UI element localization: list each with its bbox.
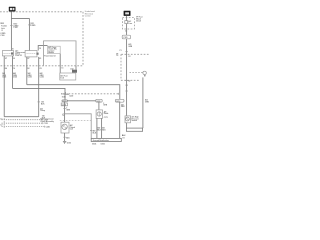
svg-text:C100: C100 bbox=[0, 35, 4, 37]
connector on A/C column with labels bbox=[61, 92, 70, 96]
wire from PCM inner box to junction block bbox=[59, 54, 61, 73]
labels on right wire bbox=[119, 43, 133, 52]
pressure switch label bbox=[132, 116, 139, 123]
svg-text:C125: C125 bbox=[40, 77, 44, 79]
fuse label bbox=[128, 20, 132, 25]
A/C column wire down bbox=[64, 102, 66, 122]
svg-text:87: 87 bbox=[28, 58, 30, 60]
left margin wire labels bbox=[0, 23, 7, 37]
PCM box outline (open bottom) bbox=[44, 41, 77, 66]
underhood fuse block dashed outline top edge bbox=[0, 11, 83, 13]
right block name bbox=[136, 17, 143, 23]
svg-text:C2: C2 bbox=[128, 56, 130, 58]
svg-text:S143: S143 bbox=[62, 96, 66, 99]
svg-text:C134: C134 bbox=[62, 103, 66, 106]
svg-text:C1: C1 bbox=[61, 68, 63, 70]
right dashed box bottom edge bbox=[121, 79, 139, 81]
compressor label rows bbox=[40, 107, 54, 122]
svg-text:E4: E4 bbox=[5, 67, 7, 70]
svg-text:C171: C171 bbox=[104, 117, 108, 119]
bottom-left dashed connector row 3 bbox=[2, 126, 45, 128]
svg-text:D2: D2 bbox=[27, 68, 29, 70]
svg-text:C100: C100 bbox=[13, 27, 17, 29]
junction block light box with text bbox=[60, 73, 76, 80]
right bus drop wire down to ground bus bbox=[119, 102, 121, 138]
svg-text:C220: C220 bbox=[69, 95, 73, 97]
svg-text:2 RED: 2 RED bbox=[30, 25, 36, 27]
label on compressor right edge wire bbox=[93, 130, 97, 135]
label left of dashed bbox=[116, 53, 119, 57]
svg-text:G104: G104 bbox=[92, 143, 96, 146]
in-line connector oval 2 (right bus drop) bbox=[115, 99, 124, 103]
A/C pressure switch box bbox=[125, 116, 131, 123]
fuse block name text bbox=[85, 11, 95, 17]
svg-text:C2: C2 bbox=[116, 55, 118, 57]
in-line connector oval 1 (diode column) bbox=[96, 99, 103, 103]
in-line connector oval on A/C column bbox=[62, 100, 68, 103]
tick at right wire y91 bbox=[125, 90, 127, 92]
left labels of connector rows bbox=[0, 118, 2, 126]
splice tick on left wire bbox=[10, 24, 12, 26]
splice label left wire bbox=[13, 24, 19, 30]
bottom-left dashed connector row 1 bbox=[2, 119, 43, 121]
tick and label at right wire y80 bbox=[125, 80, 127, 82]
junction block small dark box bbox=[72, 70, 77, 73]
svg-text:Coil: Coil bbox=[70, 129, 74, 131]
bottom-left dashed connector row 2 bbox=[2, 122, 43, 124]
diode box ground wires bbox=[97, 118, 102, 138]
svg-text:G103: G103 bbox=[67, 142, 71, 144]
svg-text:Detail: Detail bbox=[136, 19, 141, 22]
lower bus wire bbox=[13, 88, 66, 100]
svg-text:30: 30 bbox=[13, 58, 15, 60]
bottom-left dashed left edge bbox=[3, 118, 5, 128]
breaker drop wire bbox=[142, 77, 144, 128]
svg-text:C245: C245 bbox=[46, 125, 50, 128]
connector cavity labels below dashed edge bbox=[5, 67, 64, 70]
dashed connector line to right (C220) bbox=[69, 93, 119, 95]
svg-text:Comp: Comp bbox=[40, 110, 45, 112]
dashed line inside compressor box bbox=[60, 120, 91, 122]
compressor clutch coil box bbox=[61, 122, 69, 133]
svg-text:F6: F6 bbox=[13, 68, 15, 70]
svg-text:C8: C8 bbox=[39, 68, 41, 70]
wire from relay2 up to PCM box bbox=[38, 46, 47, 51]
svg-text:C125: C125 bbox=[44, 123, 48, 125]
connector oval on right wire bbox=[122, 35, 130, 39]
svg-text:Fuse: Fuse bbox=[128, 23, 132, 25]
A/C diode box bbox=[96, 110, 102, 119]
relay box pin wires down bbox=[3, 56, 5, 117]
tick on long wire bbox=[38, 101, 40, 103]
ground symbol G103 bbox=[63, 141, 71, 144]
wire label blocks under fuse block bbox=[2, 72, 7, 79]
right column labels near y99 bbox=[145, 99, 150, 104]
svg-text:87: 87 bbox=[5, 58, 7, 60]
tick on right wire bbox=[125, 51, 127, 53]
diode column wire bbox=[98, 102, 100, 110]
hot at all times label box (black) top-right bbox=[124, 11, 131, 16]
maxi fuse B box (relay box 2) bbox=[25, 51, 39, 57]
wire label below connector band bbox=[128, 56, 130, 58]
inner dashed link to breaker bbox=[130, 72, 144, 74]
relay box 1 label bbox=[15, 49, 25, 57]
right dashed box left edge bbox=[120, 54, 122, 80]
underhood fuse block dashed outline bottom edge bbox=[1, 65, 84, 67]
underhood fuse block dashed outline right edge bbox=[82, 12, 84, 66]
svg-text:Switch: Switch bbox=[132, 119, 137, 122]
right main wire bbox=[126, 16, 128, 116]
splice tick on right wire bbox=[28, 24, 30, 26]
bottom-right loop wires bbox=[126, 123, 128, 128]
svg-text:C1: C1 bbox=[119, 50, 121, 52]
bottom-right loop box bbox=[126, 128, 142, 131]
svg-text:C125: C125 bbox=[28, 77, 32, 79]
svg-text:Diode: Diode bbox=[104, 113, 109, 115]
svg-text:C1: C1 bbox=[0, 118, 2, 120]
fuse block label box (black) top-left bbox=[9, 7, 16, 12]
right dashed box top edge bbox=[121, 53, 150, 55]
tick on compressor right edge wire bbox=[90, 129, 92, 131]
tick and label on A/C column bbox=[63, 107, 65, 109]
svg-text:Ground Distribution: Ground Distribution bbox=[93, 139, 109, 142]
horizontal wire from A/C column to diode column bbox=[67, 100, 96, 102]
ground loop bottom wire bbox=[4, 116, 39, 118]
svg-text:Module: Module bbox=[48, 52, 54, 54]
maxi fuse A box (relay box 1) bbox=[2, 51, 13, 56]
corner label at ground loop bbox=[42, 116, 46, 120]
upper bus wire bbox=[27, 85, 120, 100]
svg-text:Powertrain Ctl: Powertrain Ctl bbox=[44, 55, 56, 58]
connector end symbols bbox=[42, 119, 44, 128]
svg-text:C2: C2 bbox=[0, 124, 2, 126]
svg-text:Clutch Assembly: Clutch Assembly bbox=[40, 120, 54, 123]
svg-text:S14: S14 bbox=[63, 100, 66, 103]
wire label on long wire bbox=[41, 102, 45, 106]
labels of connector rows bbox=[44, 119, 50, 128]
svg-text:Fuse 32: Fuse 32 bbox=[15, 55, 21, 57]
PCM inner text box bbox=[48, 46, 61, 54]
diode label bbox=[104, 110, 109, 119]
svg-text:C125: C125 bbox=[13, 77, 17, 79]
tick on ground wire bbox=[63, 136, 65, 138]
faint text below ground bus bbox=[92, 143, 105, 146]
splice label right wire bbox=[30, 23, 36, 27]
battery feed wire from label box bbox=[11, 12, 29, 51]
svg-text:G105: G105 bbox=[101, 144, 105, 146]
wire from PCM right edge to junction dark box bbox=[75, 66, 77, 70]
fuse symbol bbox=[125, 21, 128, 24]
svg-text:Center: Center bbox=[85, 15, 91, 18]
small component box on A/C column bbox=[61, 103, 67, 106]
pin labels below relay boxes bbox=[5, 58, 41, 60]
A/C compressor body outline bbox=[64, 114, 91, 139]
junction dot on right wire bbox=[126, 85, 128, 86]
clutch coil label bbox=[70, 124, 75, 131]
svg-text:C125: C125 bbox=[123, 37, 127, 39]
ground bus thin box bbox=[91, 138, 121, 142]
svg-text:30: 30 bbox=[39, 48, 41, 50]
svg-text:C2: C2 bbox=[128, 81, 130, 83]
circuit breaker symbol bbox=[143, 71, 146, 76]
tick at ground bus right bbox=[122, 137, 125, 139]
wire from clutch to ground bbox=[64, 133, 66, 141]
svg-text:85: 85 bbox=[39, 58, 41, 60]
right fuse dashed box bbox=[122, 17, 134, 29]
